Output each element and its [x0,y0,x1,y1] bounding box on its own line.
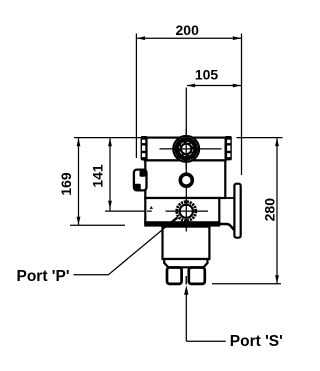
svg-text:Port 'S': Port 'S' [230,333,283,350]
middle port circle [180,174,192,186]
knob horizontal centerline [160,148,222,150]
svg-text:280: 280 [261,198,277,222]
svg-text:Port 'P': Port 'P' [17,268,70,285]
port P circle [170,202,196,224]
dimension 105 [187,66,241,87]
line to flange [219,197,234,199]
band to flange connector [220,224,234,230]
dimension 200 top [136,22,241,175]
thick mounting band [144,221,220,226]
knob vertical centerline [185,129,187,169]
body middle section [145,160,225,198]
svg-text:169: 169 [58,172,74,196]
bottom body rectangle [163,227,210,259]
hex fitting right flat [189,268,205,284]
port P horizontal centerline [147,210,152,212]
leader line Port 'S' with arrow [185,290,187,341]
hex fitting left flat [167,268,182,284]
dimension 280 right [212,138,283,284]
left clip bracket [134,170,147,191]
svg-text:141: 141 [90,164,106,188]
left ear serrated tab [141,136,148,160]
svg-text:200: 200 [176,22,200,38]
body top band [145,138,226,161]
body lower band [145,198,219,223]
dimension 169 left [58,138,145,226]
bottom shoulder [164,259,207,267]
svg-text:105: 105 [195,66,219,82]
right ear serrated tab [225,136,232,160]
vertical centerline [185,88,187,173]
small triangle mark [150,206,153,209]
dimension 141 [90,138,152,211]
right mounting flange plate [234,184,240,238]
knurled adjustment knob [172,135,200,163]
leader line Port 'P' [74,218,177,275]
